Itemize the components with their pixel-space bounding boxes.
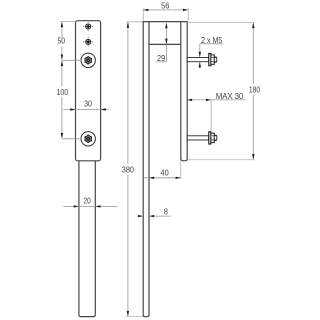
side view top cap <box>143 21 188 23</box>
dimension 50 <box>58 22 66 61</box>
side screw 1 <box>187 54 217 66</box>
dimension 380 <box>122 22 144 317</box>
screw S2 small <box>83 37 93 47</box>
dimension 56 <box>143 2 188 21</box>
dimension 20 <box>63 197 117 208</box>
front view plate <box>76 21 101 161</box>
svg-text:180: 180 <box>249 85 261 94</box>
svg-text:MAX 30: MAX 30 <box>216 92 244 101</box>
svg-text:20: 20 <box>84 197 92 206</box>
svg-text:29: 29 <box>157 54 166 63</box>
svg-text:56: 56 <box>161 2 170 11</box>
dimension 100 <box>57 60 69 139</box>
screw B1 big socket <box>81 53 95 67</box>
extension line plate top to dim <box>60 21 75 23</box>
svg-text:2 x M5: 2 x M5 <box>201 36 223 45</box>
svg-text:100: 100 <box>57 88 69 97</box>
svg-text:30: 30 <box>84 100 92 109</box>
leader screw B1 <box>62 59 81 61</box>
svg-text:380: 380 <box>122 165 135 174</box>
dimension 30 <box>63 100 108 111</box>
dimension 8 <box>137 208 171 218</box>
front view bar <box>79 161 95 317</box>
screw B2 big socket <box>81 132 95 146</box>
side view bar <box>143 22 149 317</box>
svg-text:50: 50 <box>58 37 66 46</box>
dimension 29 <box>156 23 168 63</box>
svg-text:8: 8 <box>164 208 168 217</box>
side view inner bracket line <box>149 43 181 45</box>
svg-text:40: 40 <box>161 168 170 177</box>
note 2 x M5 leader <box>199 36 223 68</box>
leader screw B2 <box>62 138 81 140</box>
dimension 40 <box>143 162 181 180</box>
side screw 2 <box>187 132 217 144</box>
screw S1 small <box>83 22 93 32</box>
dimension 180 <box>183 22 260 160</box>
dimension MAX 30 <box>187 92 246 131</box>
side view plate <box>181 22 187 161</box>
